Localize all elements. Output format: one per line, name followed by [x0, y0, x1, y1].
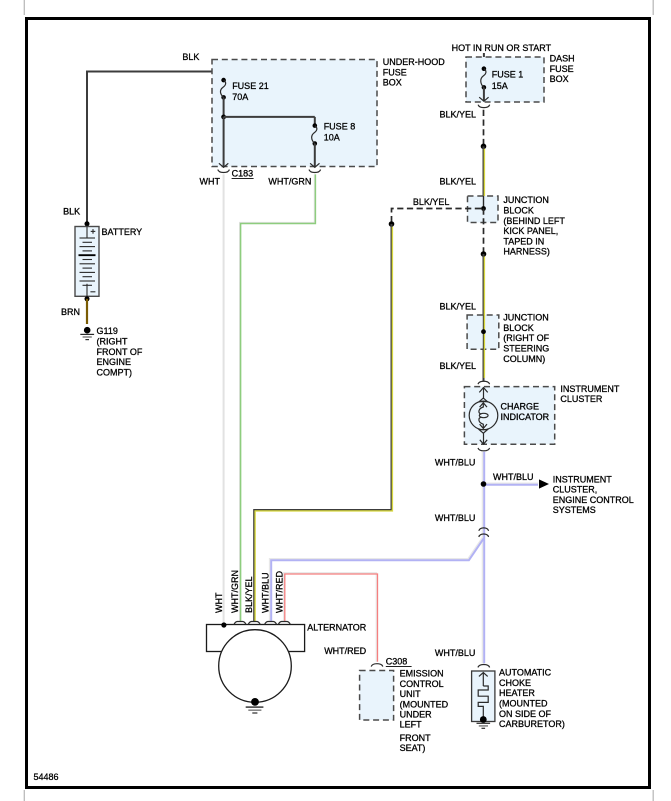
svg-text:WHT/BLU: WHT/BLU	[493, 472, 534, 482]
svg-text:JUNCTION: JUNCTION	[503, 313, 549, 323]
node battery negative	[85, 296, 90, 301]
svg-text:UNIT: UNIT	[400, 689, 421, 699]
svg-text:WHT/RED: WHT/RED	[274, 571, 284, 613]
wire dashed JB1 down	[483, 209, 485, 252]
node branch splice	[389, 221, 395, 227]
svg-text:LEFT: LEFT	[400, 720, 423, 730]
wire WHT/RED alternator to C308	[284, 573, 377, 662]
ground G119	[84, 327, 91, 334]
svg-text:BLK/YEL: BLK/YEL	[439, 176, 476, 186]
wire cluster input arrow	[483, 387, 485, 399]
alternator input connector BLK/YEL	[248, 622, 260, 625]
svg-text:CARBURETOR): CARBURETOR)	[499, 719, 565, 729]
wire dashed branch left from JB1	[392, 209, 482, 222]
wire WHT C183 to alternator	[223, 174, 225, 625]
svg-text:INSTRUMENT: INSTRUMENT	[560, 384, 619, 394]
connector C308 cap	[371, 664, 383, 667]
alternator input connector WHT/GRN	[234, 622, 246, 625]
svg-text:DASH: DASH	[550, 54, 575, 64]
svg-text:FUSE 1: FUSE 1	[492, 70, 524, 80]
svg-text:WHT/BLU: WHT/BLU	[435, 513, 476, 523]
wire BLK from battery to under-hood fuse box	[87, 72, 224, 225]
svg-text:70A: 70A	[232, 92, 248, 102]
ground at choke heater	[480, 716, 487, 723]
svg-text:BRN: BRN	[61, 307, 80, 317]
svg-text:ENGINE CONTROL: ENGINE CONTROL	[553, 495, 634, 505]
svg-text:WHT/BLU: WHT/BLU	[435, 648, 476, 658]
node JB1	[481, 206, 486, 211]
svg-text:INDICATOR: INDICATOR	[501, 412, 550, 422]
node WHT/BLU junction	[481, 481, 487, 487]
svg-text:SEAT): SEAT)	[400, 743, 426, 753]
choke heater element	[482, 673, 484, 687]
junction block JB2	[467, 315, 499, 349]
wire dashed BLK/YEL below dash fuse box	[483, 110, 485, 144]
svg-text:CONTROL: CONTROL	[400, 679, 444, 689]
svg-text:KICK PANEL,: KICK PANEL,	[503, 226, 558, 236]
svg-text:BLOCK: BLOCK	[503, 323, 534, 333]
connector cap cluster input	[478, 381, 490, 384]
wire BLK/YEL branch to alternator	[254, 224, 391, 622]
svg-text:INSTRUMENT: INSTRUMENT	[553, 474, 612, 484]
node fuse box junction	[221, 115, 226, 120]
svg-text:54486: 54486	[34, 772, 59, 782]
svg-text:EMISSION: EMISSION	[400, 669, 444, 679]
wire WHT/BLU from alternator branch	[270, 537, 483, 622]
wire inside JB1	[483, 196, 485, 209]
wire BLK/YEL S2 to junction block 2	[483, 254, 485, 315]
charge indicator lamp U1	[469, 401, 498, 430]
wire BLK/YEL S1 to junction block 1	[483, 146, 485, 196]
svg-text:ENGINE: ENGINE	[97, 357, 132, 367]
svg-text:BLK/YEL: BLK/YEL	[439, 302, 476, 312]
node JB2	[481, 329, 486, 334]
svg-text:ALTERNATOR: ALTERNATOR	[307, 623, 367, 633]
connector cup below dash fuse box	[478, 105, 490, 108]
svg-text:UNDER: UNDER	[400, 710, 433, 720]
svg-text:(MOUNTED: (MOUNTED	[400, 699, 449, 709]
svg-text:10A: 10A	[324, 133, 340, 143]
svg-text:HOT IN RUN OR START: HOT IN RUN OR START	[452, 43, 552, 53]
svg-text:WHT/GRN: WHT/GRN	[230, 570, 240, 613]
wire F1 output with arrow	[483, 87, 485, 100]
svg-text:C308: C308	[386, 657, 408, 667]
svg-text:WHT: WHT	[200, 177, 221, 187]
wire WHT/BLU cluster to choke heater	[482, 452, 484, 663]
svg-text:BLOCK: BLOCK	[503, 206, 534, 216]
svg-text:BOX: BOX	[383, 78, 402, 88]
svg-text:SYSTEMS: SYSTEMS	[553, 505, 596, 515]
ground at alternator	[251, 698, 259, 706]
connector cap choke heater input	[478, 664, 490, 667]
wire junction to fuse F8	[224, 116, 315, 118]
svg-text:WHT/BLU: WHT/BLU	[435, 457, 476, 467]
svg-text:CHOKE: CHOKE	[499, 678, 531, 688]
connector cup cluster output	[478, 448, 490, 451]
node splice S2	[481, 251, 487, 257]
splice double arcs	[479, 528, 489, 531]
fuse F1 (FUSE 1 15A)	[482, 66, 487, 71]
svg-text:FUSE 21: FUSE 21	[232, 81, 269, 91]
junction block JB1	[468, 196, 499, 223]
svg-text:FRONT OF: FRONT OF	[97, 347, 143, 357]
battery	[75, 227, 99, 297]
svg-text:HEATER: HEATER	[499, 688, 535, 698]
svg-text:BLK/YEL: BLK/YEL	[439, 110, 476, 120]
svg-text:FUSE 8: FUSE 8	[324, 122, 356, 132]
svg-text:BOX: BOX	[550, 74, 569, 84]
wire cluster output arrow	[483, 433, 485, 444]
svg-text:BLK/YEL: BLK/YEL	[244, 576, 254, 613]
svg-text:C183: C183	[232, 169, 254, 179]
svg-text:BLK/YEL: BLK/YEL	[439, 361, 476, 371]
dash fuse box	[466, 57, 544, 102]
svg-text:JUNCTION: JUNCTION	[503, 195, 549, 205]
svg-text:WHT: WHT	[214, 592, 224, 613]
svg-text:(RIGHT: (RIGHT	[97, 337, 128, 347]
wire WHT/GRN C183 to alternator	[240, 174, 315, 621]
fuse F21 (FUSE 21 70A)	[221, 78, 226, 83]
svg-text:WHT/RED: WHT/RED	[324, 646, 366, 656]
svg-text:FRONT: FRONT	[400, 733, 431, 743]
svg-text:BLK: BLK	[182, 52, 199, 62]
connector C183 right cup	[309, 170, 321, 173]
wire F21 to junction node	[223, 97, 225, 117]
svg-text:BLK/YEL: BLK/YEL	[413, 197, 450, 207]
node splice S1	[481, 144, 487, 150]
svg-text:FUSE: FUSE	[383, 67, 407, 77]
svg-text:15A: 15A	[492, 81, 508, 91]
connector C183 left cup	[218, 170, 230, 173]
fuse F8 (FUSE 8 10A)	[313, 123, 318, 128]
automatic choke heater box	[472, 671, 495, 722]
svg-text:(BEHIND LEFT: (BEHIND LEFT	[503, 216, 565, 226]
svg-text:CLUSTER,: CLUSTER,	[553, 485, 598, 495]
svg-text:(MOUNTED: (MOUNTED	[499, 699, 548, 709]
alternator input connector WHT/RED	[278, 622, 290, 625]
wire through JB2	[483, 315, 485, 349]
svg-text:TAPED IN: TAPED IN	[503, 236, 544, 246]
node WHT at alternator	[221, 622, 226, 627]
wire hot feed	[483, 53, 485, 69]
svg-text:BATTERY: BATTERY	[102, 227, 143, 237]
svg-text:COLUMN): COLUMN)	[503, 354, 545, 364]
under-hood fuse box	[212, 60, 377, 167]
svg-text:(RIGHT OF: (RIGHT OF	[503, 333, 549, 343]
instrument cluster box	[464, 387, 554, 445]
svg-text:WHT/GRN: WHT/GRN	[268, 177, 311, 187]
svg-text:BLK: BLK	[63, 206, 80, 216]
arrow to instrument cluster systems	[539, 479, 549, 488]
svg-text:G119: G119	[97, 326, 118, 336]
alternator circle	[219, 630, 292, 703]
node battery positive	[85, 221, 90, 226]
svg-text:AUTOMATIC: AUTOMATIC	[499, 668, 552, 678]
wire F8 output with arrow	[314, 144, 316, 167]
svg-text:STEERING: STEERING	[503, 344, 549, 354]
svg-text:FUSE: FUSE	[550, 64, 574, 74]
svg-text:CHARGE: CHARGE	[501, 402, 540, 412]
svg-text:WHT/BLU: WHT/BLU	[261, 573, 271, 614]
alternator box	[207, 625, 305, 652]
wire F21 output with arrow	[223, 117, 225, 167]
svg-text:COMPT): COMPT)	[97, 367, 133, 377]
svg-text:UNDER-HOOD: UNDER-HOOD	[383, 57, 445, 67]
wire WHT/BLU branch right	[484, 482, 539, 484]
svg-text:ON SIDE OF: ON SIDE OF	[499, 709, 552, 719]
svg-text:HARNESS): HARNESS)	[503, 247, 550, 257]
alternator input connector WHT/BLU	[265, 622, 277, 625]
svg-text:CLUSTER: CLUSTER	[560, 394, 603, 404]
wire BRN battery to ground	[86, 299, 88, 324]
wire BLK/YEL JB2 to instrument cluster	[483, 349, 485, 381]
emission control unit box	[360, 671, 394, 721]
